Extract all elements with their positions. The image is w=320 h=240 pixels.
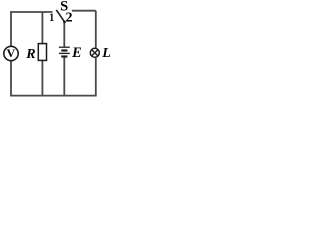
svg-text:V: V [6,46,15,60]
svg-text:1: 1 [49,11,54,24]
svg-text:L: L [101,46,111,61]
svg-text:2: 2 [66,10,73,25]
svg-text:E: E [71,45,81,61]
svg-text:R: R [25,47,35,62]
